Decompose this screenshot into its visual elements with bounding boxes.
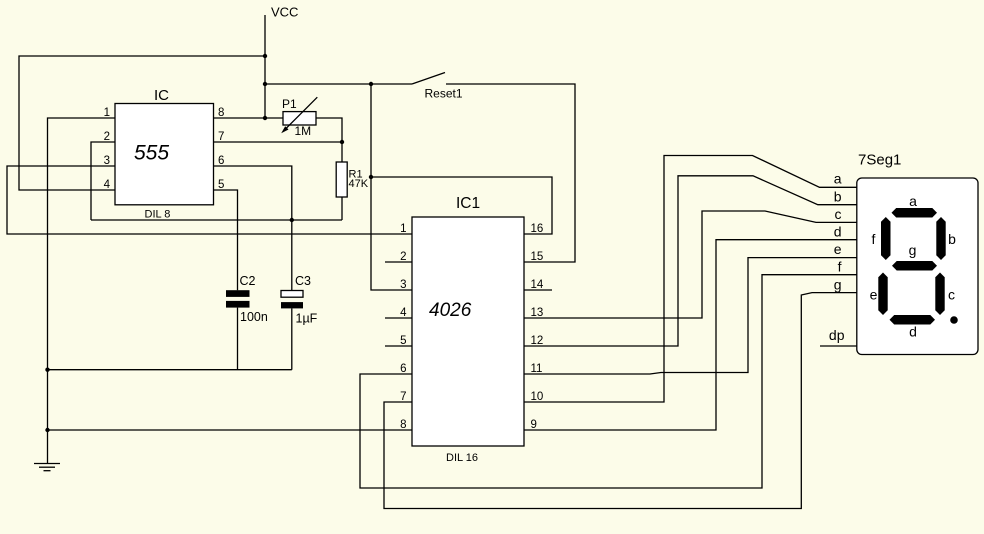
svg-text:DIL 8: DIL 8 <box>145 209 171 221</box>
svg-text:e: e <box>834 241 842 257</box>
svg-text:6: 6 <box>400 363 406 375</box>
svg-text:a: a <box>834 171 842 187</box>
svg-text:16: 16 <box>531 223 544 235</box>
svg-text:9: 9 <box>531 419 537 431</box>
svg-text:7: 7 <box>218 131 224 143</box>
svg-text:5: 5 <box>218 179 224 191</box>
svg-text:12: 12 <box>531 335 544 347</box>
svg-text:47K: 47K <box>349 178 369 190</box>
svg-text:6: 6 <box>218 155 224 167</box>
svg-text:VCC: VCC <box>271 5 298 20</box>
svg-text:3: 3 <box>104 155 110 167</box>
svg-text:10: 10 <box>531 391 544 403</box>
svg-text:14: 14 <box>531 279 544 291</box>
svg-text:a: a <box>909 193 917 209</box>
svg-text:dp: dp <box>829 327 845 343</box>
svg-text:f: f <box>872 231 876 247</box>
svg-text:IC1: IC1 <box>456 195 480 212</box>
svg-text:b: b <box>948 231 956 247</box>
svg-text:3: 3 <box>400 279 406 291</box>
svg-text:C2: C2 <box>240 274 256 288</box>
svg-text:f: f <box>838 259 842 275</box>
svg-text:13: 13 <box>531 307 544 319</box>
svg-text:4026: 4026 <box>429 300 472 321</box>
svg-text:2: 2 <box>104 131 110 143</box>
svg-text:Reset1: Reset1 <box>425 87 463 101</box>
svg-text:d: d <box>909 324 917 340</box>
svg-text:c: c <box>948 287 955 303</box>
svg-text:1M: 1M <box>295 124 312 138</box>
svg-text:g: g <box>909 242 917 258</box>
svg-text:8: 8 <box>218 107 224 119</box>
svg-text:d: d <box>834 224 842 240</box>
svg-text:2: 2 <box>400 251 406 263</box>
svg-text:4: 4 <box>400 307 407 319</box>
svg-text:b: b <box>834 189 842 205</box>
svg-text:7Seg1: 7Seg1 <box>858 152 901 169</box>
svg-text:11: 11 <box>531 363 543 375</box>
svg-text:4: 4 <box>104 179 111 191</box>
svg-text:100n: 100n <box>240 310 268 324</box>
svg-text:555: 555 <box>134 142 169 165</box>
svg-text:8: 8 <box>400 419 406 431</box>
svg-text:1: 1 <box>104 107 110 119</box>
svg-text:7: 7 <box>400 391 406 403</box>
svg-text:1µF: 1µF <box>296 312 318 326</box>
svg-text:15: 15 <box>531 251 544 263</box>
svg-text:P1: P1 <box>282 97 297 111</box>
svg-text:e: e <box>870 287 878 303</box>
svg-text:IC: IC <box>154 87 169 104</box>
svg-text:DIL 16: DIL 16 <box>446 452 478 464</box>
svg-text:1: 1 <box>400 223 406 235</box>
svg-text:C3: C3 <box>295 274 311 288</box>
svg-text:g: g <box>834 277 842 293</box>
svg-text:c: c <box>835 206 842 222</box>
svg-text:5: 5 <box>400 335 406 347</box>
